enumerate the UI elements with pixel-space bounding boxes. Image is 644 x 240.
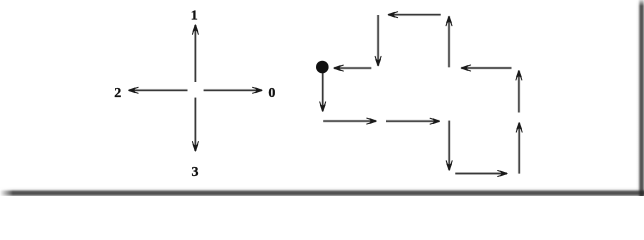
svg-text:0: 0 [268,86,275,101]
svg-text:3: 3 [192,165,199,180]
svg-text:1: 1 [191,8,198,23]
svg-text:2: 2 [114,86,121,101]
